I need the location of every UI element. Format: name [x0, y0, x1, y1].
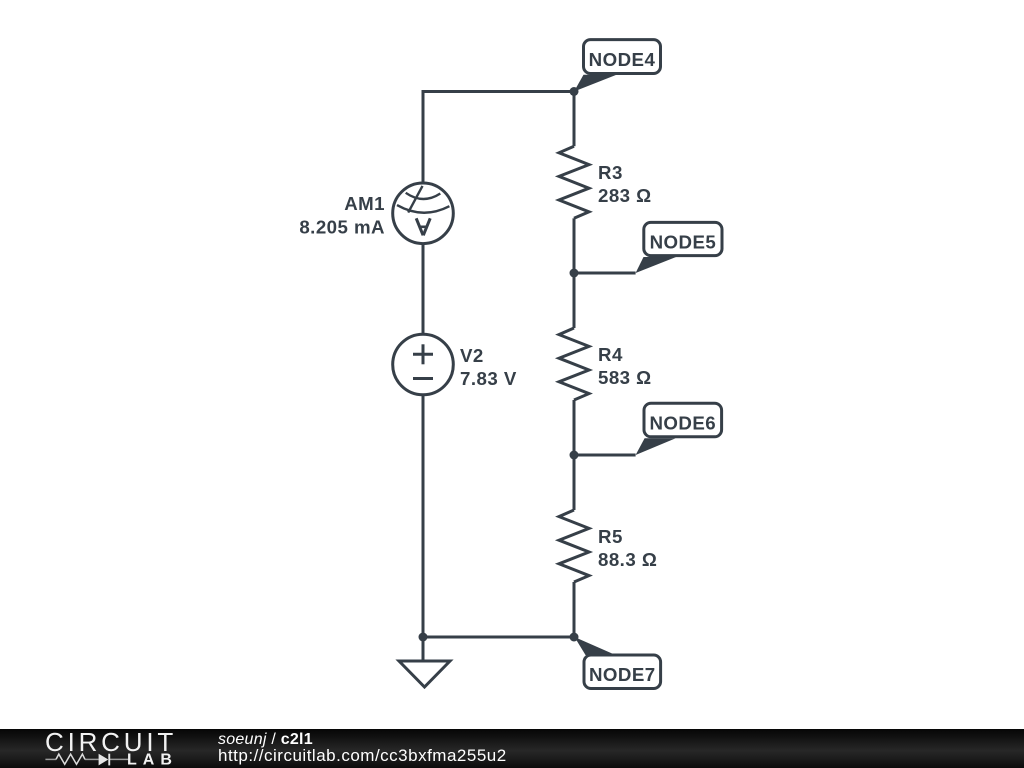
svg-text:NODE6: NODE6 — [649, 412, 716, 433]
svg-text:R3: R3 — [598, 162, 623, 183]
svg-text:283 Ω: 283 Ω — [598, 185, 652, 206]
svg-text:88.3 Ω: 88.3 Ω — [598, 549, 657, 570]
svg-text:583 Ω: 583 Ω — [598, 367, 652, 388]
svg-text:8.205 mA: 8.205 mA — [299, 216, 385, 237]
svg-text:7.83 V: 7.83 V — [460, 368, 517, 389]
svg-text:R4: R4 — [598, 344, 623, 365]
svg-text:LAB: LAB — [127, 752, 178, 768]
svg-text:V2: V2 — [460, 345, 484, 366]
svg-text:R5: R5 — [598, 526, 623, 547]
svg-text:NODE4: NODE4 — [589, 49, 656, 70]
svg-text:NODE7: NODE7 — [589, 664, 656, 685]
svg-text:NODE5: NODE5 — [650, 231, 717, 252]
svg-text:AM1: AM1 — [344, 193, 385, 214]
